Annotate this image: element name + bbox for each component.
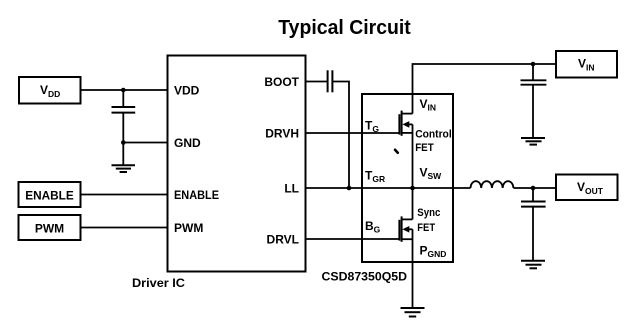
svg-text:GND: GND <box>174 136 201 150</box>
capacitor C1 (VDD bypass) <box>112 90 136 143</box>
transistor U2 CSD87350Q5D box <box>362 94 453 262</box>
label Control FET <box>415 129 452 154</box>
node VDD junction <box>121 88 126 93</box>
wire LL to VSW <box>306 187 471 189</box>
transistor Q2 Sync FET <box>399 188 412 242</box>
node VOUT junction <box>531 186 536 191</box>
label Sync FET <box>417 207 440 234</box>
svg-text:Driver IC: Driver IC <box>132 276 185 290</box>
capacitor C_boot <box>328 70 333 92</box>
svg-text:BOOT: BOOT <box>264 75 299 89</box>
svg-text:DRVH: DRVH <box>265 127 299 141</box>
svg-text:VDD: VDD <box>174 84 200 98</box>
svg-text:FET: FET <box>417 222 435 234</box>
ground G1 <box>112 143 136 173</box>
capacitor C3 (output) <box>521 188 546 260</box>
svg-text:ENABLE: ENABLE <box>25 189 74 203</box>
wire VSW to VOUT <box>513 187 556 189</box>
ground G2 <box>521 138 545 145</box>
wire PWM <box>81 227 168 229</box>
wire DRVH to TG <box>306 132 400 134</box>
op-amp U1 Driver IC box <box>168 56 306 272</box>
node VSW junction <box>410 186 415 191</box>
wire VDD <box>81 89 168 91</box>
box PWM source <box>19 215 81 240</box>
svg-text:LL: LL <box>284 182 299 196</box>
box VIN source <box>556 51 617 78</box>
wire PGND down <box>412 229 414 307</box>
svg-text:FET: FET <box>415 142 434 154</box>
svg-text:Typical Circuit: Typical Circuit <box>278 17 411 39</box>
box VOUT load <box>556 175 618 201</box>
svg-text:Sync: Sync <box>417 207 440 219</box>
svg-text:DRVL: DRVL <box>267 233 299 247</box>
node boot-LL junction <box>347 186 352 191</box>
wire BOOT left segment <box>306 81 328 83</box>
svg-text:Control: Control <box>415 129 452 141</box>
capacitor C2 (input) <box>521 64 547 137</box>
stray mark <box>395 150 398 153</box>
node GND junction <box>121 140 126 145</box>
ground G4 <box>521 261 545 269</box>
svg-text:PWM: PWM <box>174 221 203 235</box>
wire DRVL to BG <box>306 238 400 240</box>
svg-text:CSD87350Q5D: CSD87350Q5D <box>322 270 408 284</box>
wire BOOT to LL node <box>332 82 349 189</box>
box VDD source <box>19 77 81 104</box>
wire ENABLE <box>81 194 168 196</box>
svg-text:PWM: PWM <box>35 221 64 235</box>
node VIN junction <box>531 62 536 67</box>
wire VIN rail <box>413 64 557 114</box>
box ENABLE source <box>19 182 81 207</box>
ground G3 <box>401 308 425 317</box>
wire GND <box>123 142 167 144</box>
inductor L1 <box>471 181 514 188</box>
transistor Q1 Control FET <box>399 111 412 188</box>
svg-text:ENABLE: ENABLE <box>174 188 219 202</box>
